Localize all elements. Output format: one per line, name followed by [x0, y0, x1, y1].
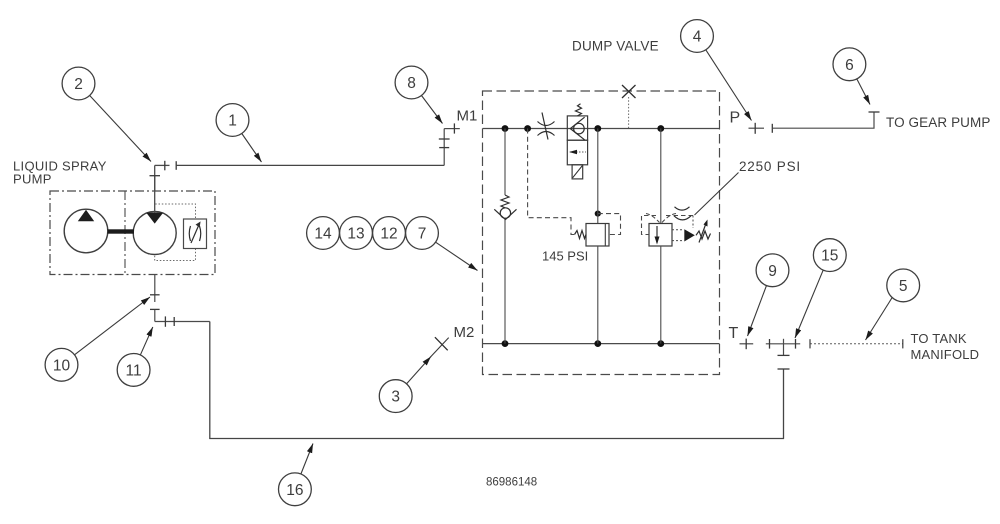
solenoid coil slash — [573, 166, 583, 178]
reducing valve spring — [575, 231, 587, 239]
fitting tick at line1 start — [175, 161, 177, 170]
drain tick — [778, 354, 790, 356]
svg-text:P: P — [730, 109, 741, 126]
svg-text:12: 12 — [380, 226, 397, 243]
tank hose tick left — [809, 339, 811, 348]
T fitting cross — [745, 339, 747, 350]
callout 3 — [379, 338, 448, 413]
fitting cross at line1 start — [164, 161, 166, 171]
callout 5 — [866, 269, 920, 340]
svg-text:MANIFOLD: MANIFOLD — [911, 347, 980, 362]
line 1 riser to M1 — [443, 129, 445, 166]
union tick left — [769, 339, 771, 349]
check valve seat — [494, 209, 516, 219]
branch line check valve (left) — [504, 129, 506, 196]
flow compensator symbol — [189, 223, 201, 243]
svg-text:10: 10 — [53, 357, 71, 374]
svg-text:5: 5 — [899, 278, 908, 295]
tank hose tick right — [902, 339, 904, 348]
pump enclosure divider — [124, 191, 126, 275]
hose to gear pump — [772, 112, 874, 128]
pump drain cross — [150, 294, 160, 296]
svg-text:TO TANK: TO TANK — [911, 331, 967, 346]
return hose left leg — [209, 322, 211, 439]
relief valve 2250psi body — [649, 224, 672, 247]
reducing valve pilot dashed left — [528, 129, 575, 235]
capped port X on top border — [622, 85, 636, 98]
return hose right leg — [783, 369, 785, 438]
reducing valve 145psi body — [586, 224, 609, 247]
callout 14 — [307, 217, 340, 250]
tank hose dotted — [810, 343, 903, 345]
relief valve branch upper — [660, 129, 662, 224]
relief valve spring right — [696, 231, 711, 239]
pump pilot sub-box (dotted) — [155, 204, 196, 261]
relief valve pilot dashed top right — [666, 215, 693, 217]
return cap tick — [150, 308, 160, 310]
relief valve branch lower — [660, 246, 662, 344]
relief valve adjust arrow — [699, 222, 707, 243]
callout 10 — [45, 297, 150, 381]
svg-text:3: 3 — [391, 389, 400, 406]
hose line 1 — [176, 164, 444, 166]
junction dots — [502, 125, 665, 347]
svg-text:2: 2 — [74, 76, 83, 93]
solenoid valve body bottom box — [567, 140, 587, 165]
svg-text:13: 13 — [347, 226, 364, 243]
callout 11 — [117, 327, 153, 386]
svg-text:15: 15 — [821, 248, 838, 265]
callout 15 — [795, 239, 846, 338]
svg-text:16: 16 — [286, 482, 303, 499]
pump left triangle — [78, 210, 94, 222]
return hose bottom run — [209, 438, 784, 440]
relief valve pilot loop left — [642, 216, 657, 235]
M2 capped port X — [435, 337, 448, 350]
check valve spring — [501, 195, 509, 208]
P gallery line — [483, 128, 720, 130]
pump right circle — [133, 212, 176, 255]
callout 2 — [62, 67, 151, 161]
solenoid valve check seat — [570, 117, 584, 140]
label TO TANK MANIFOLD — [911, 331, 980, 362]
reducing valve branch upper — [597, 129, 599, 224]
union tick right — [795, 339, 797, 349]
svg-text:M1: M1 — [457, 108, 478, 125]
svg-text:4: 4 — [693, 29, 702, 46]
T gallery line — [483, 343, 720, 345]
drain cap tick — [778, 368, 790, 370]
pump left circle — [64, 209, 108, 253]
gear pump end tick — [869, 111, 880, 113]
fitting tick on M1 riser — [439, 147, 449, 149]
pump enclosure box — [50, 191, 215, 275]
label LIQUID SPRAY PUMP — [13, 159, 107, 187]
svg-text:1: 1 — [228, 113, 237, 130]
dotted drop from X — [628, 97, 630, 129]
relief valve vent arcs — [674, 207, 691, 220]
svg-text:7: 7 — [418, 226, 427, 243]
dump valve enclosure — [483, 91, 720, 375]
callout 13 — [340, 217, 373, 250]
svg-text:145 PSI: 145 PSI — [542, 249, 588, 264]
callout 8 — [395, 66, 442, 123]
svg-text:86986148: 86986148 — [486, 476, 537, 488]
check valve ball — [500, 208, 510, 218]
P port fitting piece — [749, 127, 765, 129]
svg-text:T: T — [729, 325, 739, 342]
svg-text:M2: M2 — [454, 324, 475, 341]
callout 9 — [748, 254, 789, 336]
svg-text:TO GEAR PUMP: TO GEAR PUMP — [886, 115, 990, 130]
return riser to cap — [154, 310, 156, 322]
pump drain stub — [154, 275, 156, 303]
pump right triangle — [146, 213, 163, 224]
svg-text:DUMP VALVE: DUMP VALVE — [572, 39, 659, 54]
relief valve pilot wings — [646, 214, 676, 223]
return fitting cross — [164, 316, 166, 326]
solenoid valve blocked arrow — [570, 151, 586, 153]
hose line 1 riser from pump — [154, 165, 156, 191]
reducing valve branch lower — [597, 246, 599, 344]
adjustable restrictor on P line — [538, 113, 555, 140]
svg-text:14: 14 — [314, 226, 332, 243]
pump inlet line — [154, 176, 156, 213]
T port fitting piece — [740, 343, 754, 345]
svg-text:PUMP: PUMP — [13, 172, 52, 187]
svg-text:9: 9 — [768, 263, 777, 280]
line 1 left stub — [155, 164, 170, 166]
fitting cross on pump riser — [150, 175, 161, 177]
return fitting tick — [173, 317, 175, 326]
relief valve flow arrow — [656, 226, 658, 243]
fitting cross at M1 — [453, 123, 455, 133]
solenoid valve body top box — [567, 116, 587, 140]
callout 16 — [279, 444, 314, 506]
solenoid valve check circle — [574, 123, 585, 134]
P line tick — [771, 124, 773, 133]
P fitting cross — [754, 123, 756, 134]
fitting cross on M1 riser — [439, 138, 450, 140]
svg-text:2250 PSI: 2250 PSI — [739, 159, 801, 174]
reducing valve double edge — [604, 224, 606, 247]
flow compensator box — [184, 219, 207, 249]
pump shaft bar — [108, 229, 135, 233]
reducing valve pilot dashed right — [598, 214, 621, 235]
branch line below check valve — [504, 220, 506, 344]
svg-text:6: 6 — [845, 57, 854, 74]
callout 7 — [406, 217, 478, 271]
callout 6 — [833, 48, 870, 105]
solenoid valve spring top — [576, 104, 582, 116]
relief valve poppet triangle — [684, 229, 695, 241]
M1 stub — [444, 128, 460, 130]
T union piece — [766, 343, 800, 345]
callout 12 — [373, 217, 406, 250]
callout 4 — [681, 20, 752, 121]
callout 1 — [216, 104, 261, 162]
relief valve pilot to spring box — [672, 216, 693, 241]
svg-text:11: 11 — [126, 362, 142, 379]
leader 2250 to valve — [695, 173, 739, 216]
solenoid coil box — [572, 165, 583, 179]
return hose top run — [155, 321, 210, 323]
T drain drop — [783, 339, 785, 356]
svg-text:8: 8 — [407, 75, 416, 92]
